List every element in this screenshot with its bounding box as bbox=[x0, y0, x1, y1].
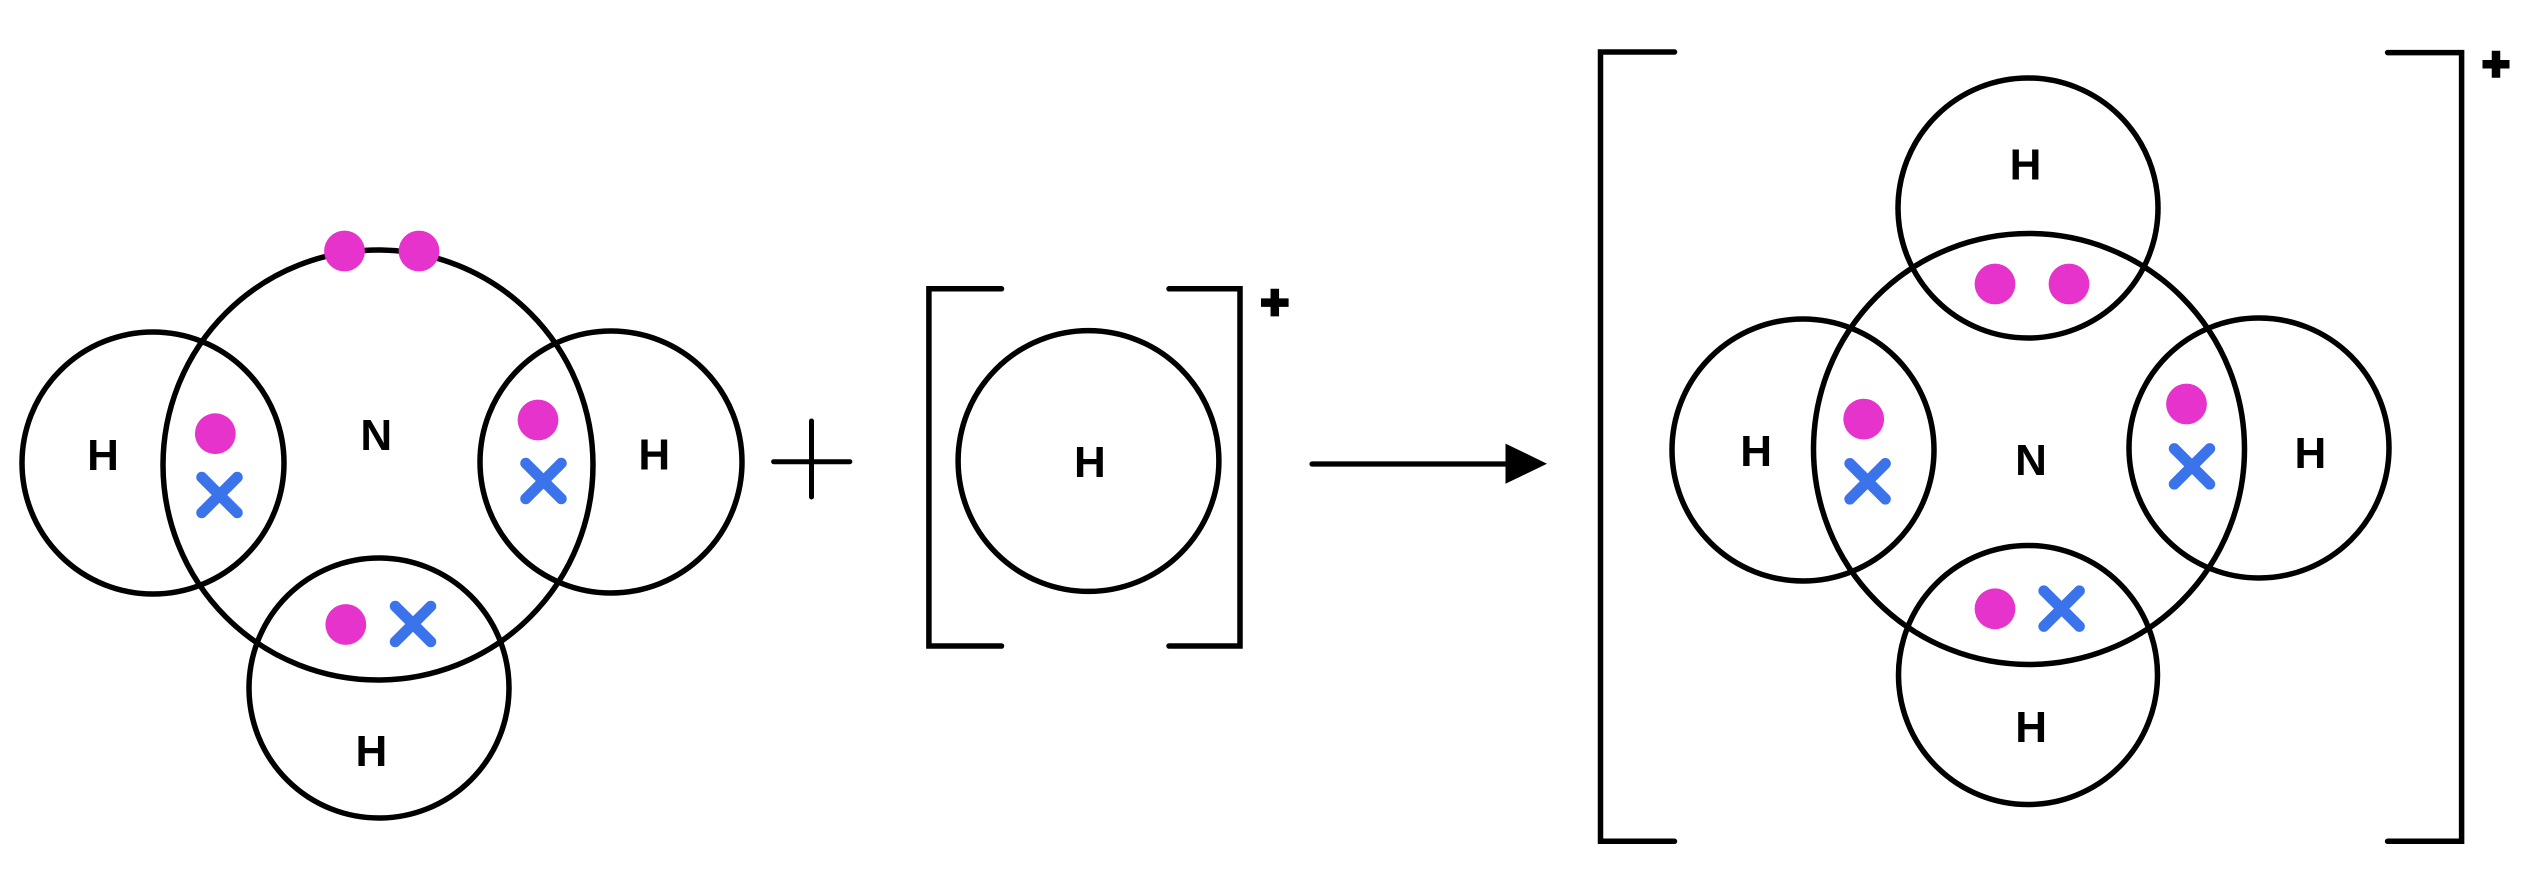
right bond dot bbox=[518, 400, 559, 441]
svg-text:N: N bbox=[2015, 436, 2047, 485]
H+ charge plus bbox=[1261, 289, 1289, 317]
H+ left bracket bbox=[929, 289, 1002, 646]
right H shell circle bbox=[480, 331, 742, 593]
N shell circle bbox=[163, 250, 593, 680]
ammonium N shell circle bbox=[1814, 234, 2245, 665]
ammonium left bond dot bbox=[1843, 399, 1884, 440]
svg-text:H: H bbox=[87, 431, 119, 480]
ammonium bottom bond dot bbox=[1975, 588, 2016, 629]
ammonium left H shell circle bbox=[1672, 319, 1934, 581]
right bond cross bbox=[526, 463, 562, 499]
ammonium right bond dot bbox=[2166, 384, 2207, 425]
svg-text:H: H bbox=[2015, 703, 2047, 752]
ammonium bottom bond cross bbox=[2044, 591, 2080, 627]
ammonium top H shell circle bbox=[1898, 78, 2158, 338]
dative bond dots bbox=[1975, 264, 2090, 305]
ammonium right bracket bbox=[2388, 53, 2462, 842]
svg-text:N: N bbox=[360, 411, 392, 460]
ammonium charge plus bbox=[2483, 51, 2510, 78]
svg-text:H: H bbox=[2010, 141, 2042, 190]
svg-text:H: H bbox=[638, 431, 670, 480]
H+ circle bbox=[958, 331, 1219, 592]
ammonia labels bbox=[87, 411, 670, 776]
bottom H shell circle bbox=[249, 558, 509, 818]
ammonium left bond cross bbox=[1850, 464, 1886, 500]
svg-text:H: H bbox=[1074, 438, 1106, 487]
bottom bond dot bbox=[325, 604, 366, 645]
left H shell circle bbox=[22, 332, 284, 594]
bottom bond cross bbox=[395, 606, 431, 642]
left bond cross bbox=[202, 477, 238, 513]
plus sign bbox=[774, 421, 850, 497]
left bond dot bbox=[195, 413, 236, 454]
ammonium ion bbox=[1672, 78, 2389, 805]
lone pair dots bbox=[324, 231, 439, 272]
ammonium bottom H shell circle bbox=[1899, 546, 2158, 805]
svg-text:H: H bbox=[1740, 427, 1772, 476]
ammonia molecule bbox=[22, 250, 742, 818]
svg-text:H: H bbox=[356, 727, 388, 776]
ammonium labels bbox=[1740, 141, 2326, 752]
ammonium left bracket bbox=[1601, 52, 1675, 841]
reaction arrow bbox=[1312, 444, 1547, 484]
H+ right bracket bbox=[1169, 289, 1240, 646]
ammonium right bond cross bbox=[2174, 449, 2210, 485]
ammonium right H shell circle bbox=[2129, 318, 2389, 578]
svg-text:H: H bbox=[2295, 429, 2327, 478]
